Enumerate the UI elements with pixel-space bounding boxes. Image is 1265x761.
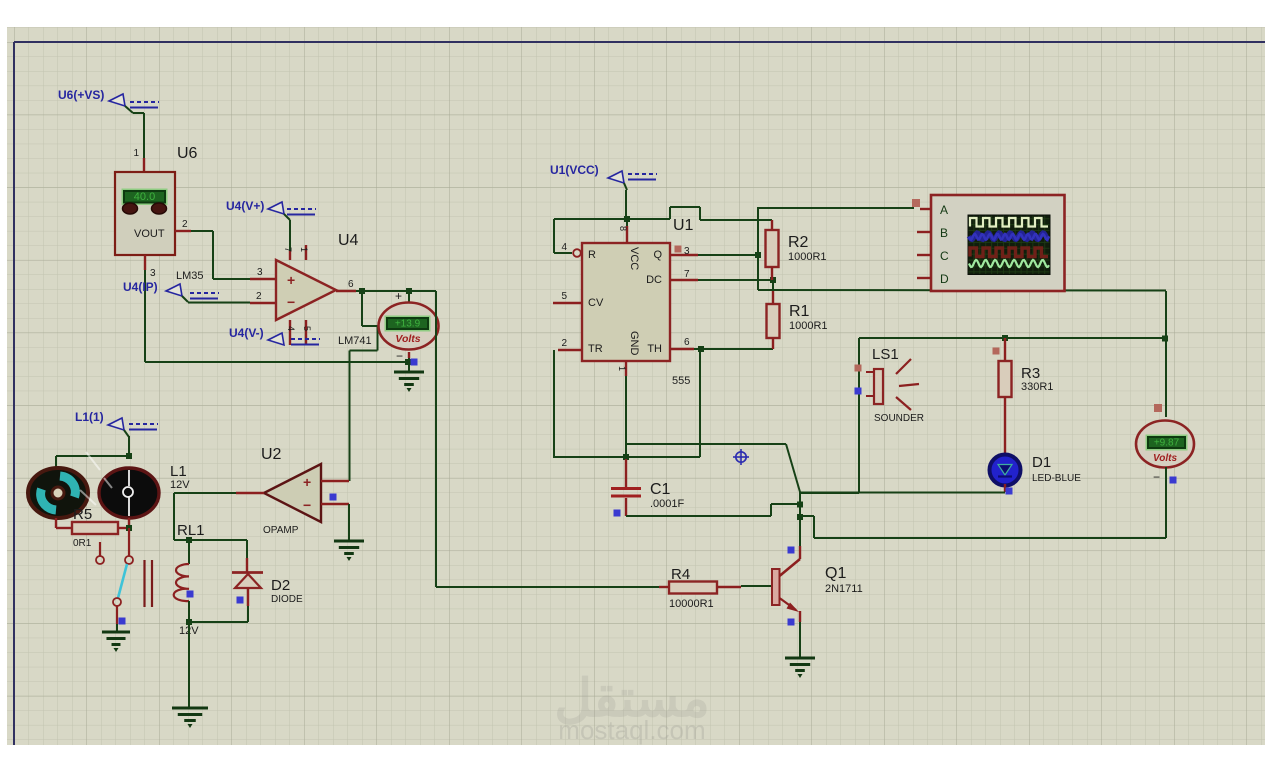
svg-text:U6: U6 — [177, 145, 198, 162]
svg-text:GND: GND — [628, 331, 640, 356]
svg-text:3: 3 — [150, 268, 156, 279]
svg-text:R2: R2 — [788, 234, 809, 251]
svg-text:5: 5 — [561, 291, 567, 302]
svg-text:L1: L1 — [170, 463, 187, 480]
svg-text:Volts: Volts — [395, 333, 420, 345]
svg-text:5: 5 — [302, 326, 312, 331]
svg-text:RL1: RL1 — [177, 522, 205, 539]
svg-text:A: A — [940, 203, 948, 217]
svg-text:1: 1 — [617, 366, 627, 371]
svg-text:+9.87: +9.87 — [1154, 438, 1180, 449]
svg-text:LM35: LM35 — [176, 270, 204, 282]
svg-text:R1: R1 — [789, 303, 810, 320]
svg-text:U4: U4 — [338, 232, 359, 249]
svg-text:C1: C1 — [650, 481, 671, 498]
svg-text:D: D — [940, 272, 949, 286]
svg-text:U4(IP): U4(IP) — [123, 280, 158, 294]
svg-text:D1: D1 — [1032, 454, 1051, 471]
svg-text:7: 7 — [684, 269, 690, 280]
svg-text:40.0: 40.0 — [134, 191, 155, 203]
svg-text:+: + — [395, 289, 402, 303]
svg-text:4: 4 — [561, 242, 567, 253]
svg-text:U4(V+): U4(V+) — [226, 199, 264, 213]
svg-text:+: + — [303, 474, 311, 490]
svg-text:Q: Q — [653, 249, 662, 261]
svg-text:DC: DC — [646, 274, 662, 286]
svg-text:LS1: LS1 — [872, 346, 899, 363]
svg-text:LM741: LM741 — [338, 335, 372, 347]
svg-text:−: − — [1153, 470, 1160, 484]
svg-text:R: R — [588, 249, 596, 261]
svg-text:R3: R3 — [1021, 365, 1040, 382]
svg-text:R5: R5 — [73, 506, 92, 523]
svg-text:D2: D2 — [271, 577, 290, 594]
svg-text:−: − — [287, 294, 295, 310]
svg-text:Volts: Volts — [1153, 453, 1178, 464]
svg-text:3: 3 — [257, 267, 263, 278]
svg-text:Q1: Q1 — [825, 565, 846, 582]
svg-text:555: 555 — [672, 375, 690, 387]
svg-text:4: 4 — [286, 326, 296, 331]
svg-text:U1: U1 — [673, 217, 694, 234]
svg-text:U4(V-): U4(V-) — [229, 326, 264, 340]
svg-text:7: 7 — [283, 247, 293, 252]
svg-text:12V: 12V — [170, 479, 190, 491]
svg-text:OPAMP: OPAMP — [263, 525, 299, 536]
svg-text:L1(1): L1(1) — [75, 410, 104, 424]
svg-text:CV: CV — [588, 297, 604, 309]
svg-text:6: 6 — [684, 337, 690, 348]
svg-text:VCC: VCC — [628, 247, 640, 270]
svg-text:U2: U2 — [261, 446, 282, 463]
svg-text:1000R1: 1000R1 — [789, 320, 828, 332]
svg-text:6: 6 — [348, 279, 354, 290]
svg-text:3: 3 — [684, 246, 690, 257]
svg-text:−: − — [396, 349, 403, 363]
svg-text:0R1: 0R1 — [73, 538, 92, 549]
svg-text:2: 2 — [561, 338, 567, 349]
svg-text:mostaql.com: mostaql.com — [558, 715, 705, 745]
svg-text:VOUT: VOUT — [134, 228, 165, 240]
svg-text:.0001F: .0001F — [650, 498, 685, 510]
svg-text:TH: TH — [647, 343, 662, 355]
svg-text:1: 1 — [299, 247, 309, 252]
svg-text:+: + — [287, 272, 295, 288]
svg-text:10000R1: 10000R1 — [669, 598, 714, 610]
svg-text:TR: TR — [588, 343, 603, 355]
svg-text:2: 2 — [182, 219, 188, 230]
svg-text:+13.9: +13.9 — [395, 319, 421, 330]
svg-text:8: 8 — [618, 226, 628, 231]
svg-text:LED-BLUE: LED-BLUE — [1032, 473, 1081, 484]
svg-text:DIODE: DIODE — [271, 594, 303, 605]
svg-text:330R1: 330R1 — [1021, 381, 1053, 393]
svg-text:1000R1: 1000R1 — [788, 251, 827, 263]
svg-text:R4: R4 — [671, 566, 690, 583]
svg-text:−: − — [303, 497, 311, 513]
svg-text:SOUNDER: SOUNDER — [874, 413, 924, 424]
svg-text:B: B — [940, 226, 948, 240]
svg-text:2: 2 — [256, 291, 262, 302]
svg-text:U1(VCC): U1(VCC) — [550, 163, 599, 177]
svg-text:U6(+VS): U6(+VS) — [58, 88, 104, 102]
svg-text:C: C — [940, 249, 949, 263]
svg-text:2N1711: 2N1711 — [825, 583, 863, 595]
svg-text:1: 1 — [133, 148, 139, 159]
